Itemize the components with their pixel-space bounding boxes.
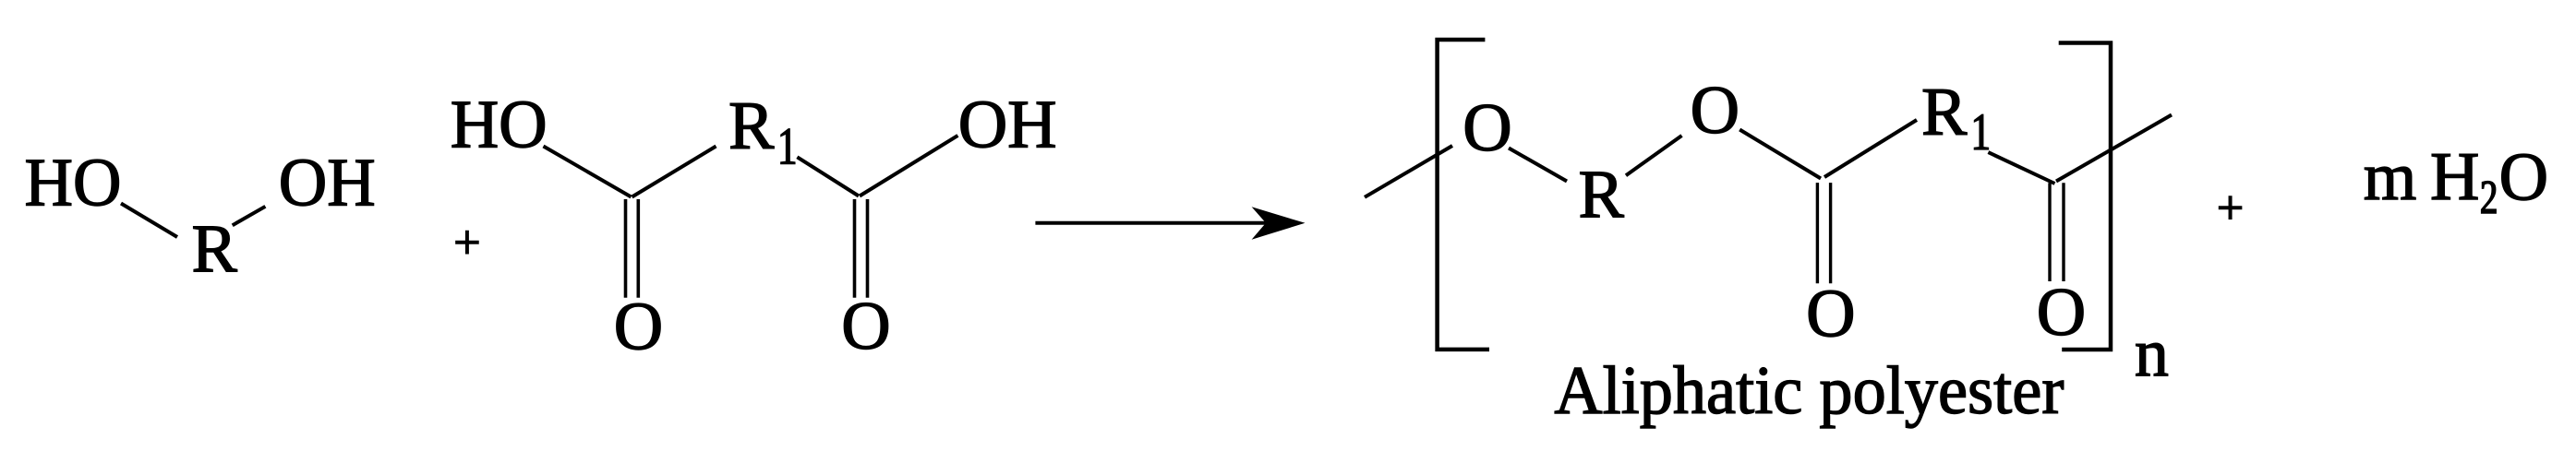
subscript 1 of R1 (polymer): [1974, 114, 1988, 149]
svg-text:O: O: [2037, 275, 2086, 350]
svg-text:HO: HO: [25, 146, 122, 221]
bond O-C3 (polymer ester single bond): [1739, 130, 1821, 179]
subscript 1 of R1 (diacid): [781, 129, 795, 164]
reaction arrow head: [1252, 207, 1306, 239]
svg-text:R: R: [1921, 75, 1968, 150]
bond R-OH (diol right C-O bond): [233, 207, 266, 226]
svg-text:+: +: [2217, 182, 2244, 234]
left square bracket of repeat unit: [1438, 40, 1489, 350]
double bond C2=O (diacid right carbonyl): [853, 199, 857, 298]
svg-text:O: O: [1806, 277, 1855, 352]
svg-text:R: R: [1579, 158, 1625, 233]
leading bond into repeat unit: [1365, 146, 1452, 197]
right square bracket of repeat unit: [2059, 43, 2111, 350]
svg-text:Aliphatic polyester: Aliphatic polyester: [1554, 353, 2064, 429]
bond C2-OH (diacid right C-O single bond): [860, 136, 957, 196]
svg-text:H: H: [2430, 139, 2479, 215]
svg-text:R: R: [728, 89, 775, 164]
bond C1-R1 (diacid): [632, 147, 716, 197]
svg-text:O: O: [1691, 73, 1739, 148]
svg-text:O: O: [841, 289, 890, 364]
trailing bond out of repeat unit: [2056, 115, 2172, 182]
svg-text:O: O: [1463, 90, 1511, 166]
reaction arrow: [1035, 221, 1291, 225]
bond R-O (polymer): [1626, 136, 1682, 175]
svg-text:n: n: [2135, 316, 2169, 392]
svg-text:R: R: [192, 212, 238, 288]
svg-text:+: +: [453, 217, 480, 269]
formula m H2O: subscript 2: [2482, 182, 2497, 213]
bond R1-C2 (diacid): [797, 157, 859, 196]
svg-text:OH: OH: [958, 87, 1057, 162]
bond HO-R (diol left C-O bond): [121, 204, 177, 238]
bond O-R (polymer): [1509, 148, 1567, 182]
double bond C1=O (diacid left carbonyl): [624, 199, 628, 298]
bond HO-C1 (diacid left C-O single bond): [544, 147, 632, 197]
svg-text:O: O: [614, 290, 663, 365]
bond R1-C4 (polymer): [1988, 152, 2054, 184]
bond C3-R1 (polymer): [1824, 120, 1917, 177]
double bond C4=O (polymer right carbonyl): [2048, 183, 2051, 281]
svg-text:O: O: [2499, 140, 2548, 216]
double bond C3=O (polymer left carbonyl): [1816, 183, 1819, 283]
svg-text:m: m: [2364, 139, 2417, 215]
svg-text:OH: OH: [279, 146, 376, 221]
svg-text:HO: HO: [451, 87, 548, 162]
